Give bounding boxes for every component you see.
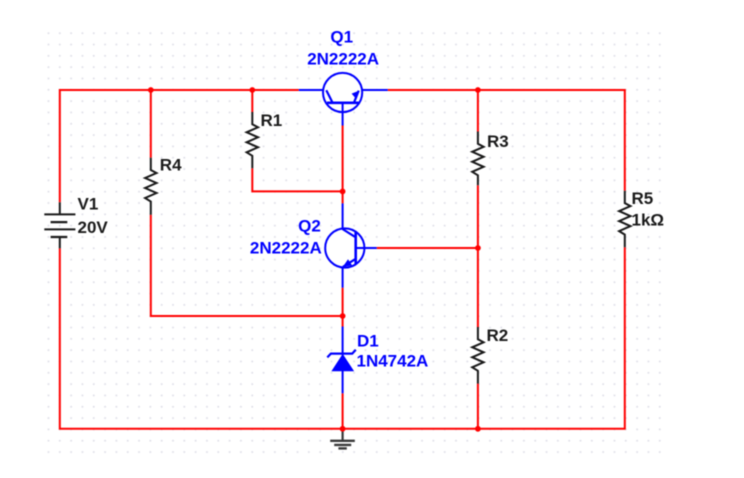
resistor R4 (145, 158, 156, 215)
node R1-top (249, 87, 255, 93)
Q1 emitter lead (right) (359, 89, 388, 91)
wire D1 anode to ground rail (342, 393, 344, 429)
svg-text:V1: V1 (78, 195, 99, 214)
wire Q2 emitter down (342, 288, 344, 327)
Q1 collector lead (left) (299, 89, 327, 91)
resistor R5 (619, 191, 630, 247)
Q1 base bar (327, 102, 359, 105)
D1 cathode lead (top) (342, 327, 344, 356)
wire Q1 base to Q2 collector (342, 126, 344, 204)
wire R4 bottom to node (151, 215, 343, 316)
D1 anode triangle (332, 355, 353, 371)
grid dot background (43, 27, 665, 457)
wire left vertical lower + bottom rail + right vertical lower (60, 247, 625, 429)
Q2 collector lead (top) (342, 203, 344, 229)
Q2 emitter arrow (343, 259, 352, 267)
node R1-bottom / Q1 base (340, 189, 346, 195)
ground (330, 431, 355, 449)
wire top rail right (388, 90, 625, 191)
transistor Q2 (325, 203, 377, 287)
Q1 circle (323, 73, 362, 112)
svg-text:R5: R5 (632, 189, 654, 208)
svg-text:Q1: Q1 (330, 27, 353, 46)
wire R2 bottom (477, 384, 479, 429)
resistor R3 (472, 132, 483, 186)
wire R1 bottom to node (252, 168, 342, 191)
resistor R1 (247, 112, 258, 168)
node ground junction (340, 426, 346, 432)
Q2 base lead (356, 247, 377, 249)
wire R3 top (477, 89, 479, 132)
wire top rail left (60, 90, 299, 202)
svg-text:2N2222A: 2N2222A (250, 238, 322, 257)
Q2 collector slant (343, 229, 356, 237)
svg-text:20V: 20V (78, 218, 109, 237)
svg-text:1N4742A: 1N4742A (357, 352, 429, 371)
Q1 base lead (342, 103, 344, 126)
svg-text:R2: R2 (487, 326, 509, 345)
D1 anode lead (bottom) (342, 371, 344, 394)
resistor R2 (472, 327, 483, 384)
wire R1 top (251, 89, 253, 112)
battery V1 (44, 202, 75, 248)
zener diode D1 (327, 327, 356, 394)
svg-text:R1: R1 (261, 111, 283, 130)
Q2 emitter lead (bottom) (342, 267, 344, 288)
Q1 emitter arrow (352, 91, 360, 100)
svg-text:2N2222A: 2N2222A (307, 50, 379, 69)
node R4-top (148, 87, 154, 93)
svg-text:R3: R3 (487, 132, 509, 151)
svg-text:D1: D1 (357, 331, 379, 350)
svg-text:Q2: Q2 (298, 217, 321, 236)
Q2 emitter slant (343, 259, 356, 267)
wire Q2 base to R3/R2 node (377, 247, 478, 249)
svg-text:R4: R4 (160, 156, 182, 175)
node R2-bottom (475, 426, 481, 432)
wire R3 bottom to R2 top (477, 185, 479, 327)
Q1 emitter slant (354, 91, 359, 103)
Q2 circle (325, 228, 364, 267)
wire R4 top (150, 89, 152, 158)
node R4-bottom / Q2 emitter (340, 313, 346, 319)
svg-text:1kΩ: 1kΩ (632, 210, 665, 229)
node Q2 base / R3-R2 (475, 245, 481, 251)
transistor Q1 (299, 73, 388, 126)
node R3-top (475, 87, 481, 93)
Q2 base bar (354, 232, 357, 264)
Q1 collector slant (326, 90, 332, 103)
D1 cathode bar with zener ticks (327, 350, 356, 358)
